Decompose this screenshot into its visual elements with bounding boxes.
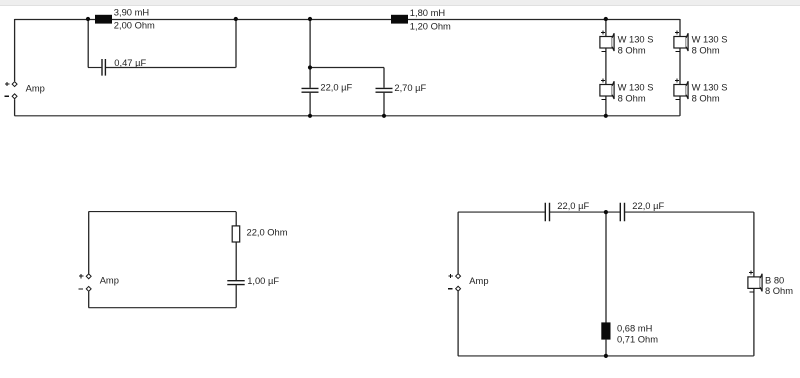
node junction top rail at bypass left xyxy=(86,17,90,21)
wire left branch lower xyxy=(457,291,459,356)
amp A2 terminal minus xyxy=(86,286,91,291)
wire speaker branch 2 xyxy=(679,19,681,116)
wire loop right upper xyxy=(235,212,237,226)
svg-text:8 Ohm: 8 Ohm xyxy=(618,45,646,55)
node junction bottom rail middle xyxy=(604,354,608,358)
svg-text:8 Ohm: 8 Ohm xyxy=(692,45,720,55)
speaker S1 W 130 S xyxy=(600,30,614,51)
node junction top rail at shunt 1 xyxy=(308,17,312,21)
wire left vertical lower xyxy=(14,99,16,116)
wire loop right lower xyxy=(235,285,237,308)
wire loop left lower xyxy=(88,292,90,308)
wire loop bottom xyxy=(89,307,237,309)
wire right branch xyxy=(753,212,755,356)
wire top rail xyxy=(15,19,680,21)
capacitor C1 0,47 uF plates xyxy=(102,59,105,76)
capacitor C2 22,0 uF plates xyxy=(302,88,319,92)
svg-text:3,90 mH: 3,90 mH xyxy=(114,8,149,18)
svg-text:22,0 µF: 22,0 µF xyxy=(632,201,664,211)
svg-text:B 80: B 80 xyxy=(765,275,784,285)
svg-text:1,00 µF: 1,00 µF xyxy=(247,276,279,286)
wire bypass loop right xyxy=(235,19,237,68)
svg-text:22,0 µF: 22,0 µF xyxy=(557,201,589,211)
amp A2 terminal plus xyxy=(86,274,91,279)
node junction bottom rail shunt 1 xyxy=(308,114,312,118)
svg-text:8 Ohm: 8 Ohm xyxy=(618,93,646,103)
speaker S3 W 130 S xyxy=(674,30,688,51)
amp A1 plus sign xyxy=(5,82,9,86)
node junction top rail at bypass right xyxy=(234,17,238,21)
wire bypass loop bottom right xyxy=(106,67,236,69)
amp A2 minus sign xyxy=(79,288,83,290)
amp A1 minus sign xyxy=(5,95,9,97)
svg-text:8 Ohm: 8 Ohm xyxy=(765,286,793,296)
inductor L2 1,80 mH xyxy=(391,15,408,24)
wire middle branch upper xyxy=(605,212,607,322)
node junction bottom rail speakers xyxy=(604,114,608,118)
wire bottom rail xyxy=(15,115,680,117)
wire middle branch lower xyxy=(605,340,607,356)
wire left vertical upper xyxy=(14,19,16,81)
wire bottom rail xyxy=(458,355,754,357)
amp A3 minus sign xyxy=(448,288,452,290)
svg-text:0,68 mH: 0,68 mH xyxy=(617,323,652,333)
wire shunt branch 2 lower xyxy=(383,93,385,116)
wire loop top xyxy=(89,211,237,213)
svg-text:1,80 mH: 1,80 mH xyxy=(410,8,445,18)
wire bypass loop bottom left xyxy=(88,67,101,69)
svg-text:W 130 S: W 130 S xyxy=(692,82,728,92)
node junction top rail at speakers xyxy=(604,17,608,21)
wire shunt branch 2 upper xyxy=(383,68,385,88)
amp A2 plus sign xyxy=(79,274,83,278)
node junction bottom rail shunt 2 xyxy=(382,114,386,118)
svg-text:Amp: Amp xyxy=(26,83,45,93)
svg-text:2,00 Ohm: 2,00 Ohm xyxy=(114,21,155,31)
capacitor C3 2,70 uF plates xyxy=(376,88,393,92)
node junction top rail middle xyxy=(604,210,608,214)
svg-text:0,47 µF: 0,47 µF xyxy=(114,58,146,68)
speaker S4 W 130 S xyxy=(674,78,688,99)
wire shunt branch 1 lower xyxy=(309,93,311,116)
capacitor C6 22,0 uF plates xyxy=(620,203,624,222)
speaker S2 W 130 S xyxy=(600,78,614,99)
svg-text:8 Ohm: 8 Ohm xyxy=(692,93,720,103)
amp A3 terminal plus xyxy=(456,274,461,279)
svg-text:22,0 Ohm: 22,0 Ohm xyxy=(247,227,288,237)
wire top rail segment 1 xyxy=(458,211,545,213)
capacitor C5 22,0 uF plates xyxy=(545,203,549,222)
svg-text:2,70 µF: 2,70 µF xyxy=(394,83,426,93)
speaker S5 B 80 xyxy=(748,271,762,292)
wire shunt branch 1 upper xyxy=(309,19,311,88)
wire loop right mid xyxy=(235,242,237,280)
resistor R1 22,0 Ohm xyxy=(232,226,240,242)
node junction mid link xyxy=(308,65,312,69)
amp A1 terminal plus xyxy=(12,82,17,87)
wire loop left upper xyxy=(88,212,90,274)
wire left branch upper xyxy=(457,212,459,273)
inductor L1 3,90 mH xyxy=(95,15,112,24)
svg-text:Amp: Amp xyxy=(100,276,119,286)
inductor L3 0,68 mH xyxy=(601,322,610,339)
amp A3 plus sign xyxy=(448,274,452,278)
amp A3 terminal minus xyxy=(456,286,461,291)
wire mid link xyxy=(310,67,384,69)
wire bypass loop left xyxy=(87,19,89,68)
svg-text:W 130 S: W 130 S xyxy=(618,82,654,92)
svg-text:Amp: Amp xyxy=(469,276,488,286)
wire speaker branch 1 xyxy=(605,19,607,116)
amp A1 terminal minus xyxy=(12,94,17,99)
svg-text:W 130 S: W 130 S xyxy=(618,34,654,44)
capacitor C4 1,00 uF plates xyxy=(227,281,244,285)
wire top rail segment 2 xyxy=(550,211,620,213)
svg-text:1,20 Ohm: 1,20 Ohm xyxy=(410,21,451,31)
svg-text:0,71 Ohm: 0,71 Ohm xyxy=(617,334,658,344)
top window strip xyxy=(0,0,800,6)
svg-text:W 130 S: W 130 S xyxy=(692,34,728,44)
svg-text:22,0 µF: 22,0 µF xyxy=(320,83,352,93)
wire top rail segment 3 xyxy=(625,211,754,213)
